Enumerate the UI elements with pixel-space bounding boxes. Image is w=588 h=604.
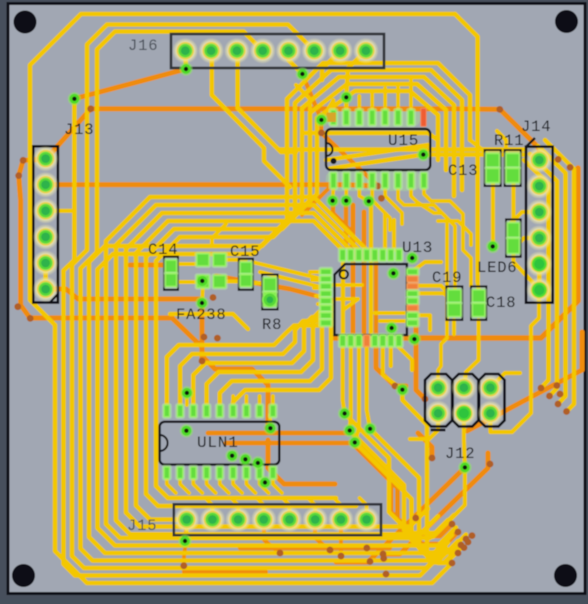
wire J12 area links (410, 413, 438, 439)
wire orange vertical x268 to ULN bottom (268, 440, 335, 484)
wire orange from J13 pad6 east y299 (46, 289, 200, 299)
olive pad near U15 pin1 (327, 113, 337, 123)
svg-text:C15: C15 (230, 243, 260, 261)
svg-text:LED6: LED6 (477, 259, 517, 277)
wire ULN1 inner vias links (185, 393, 189, 405)
LED LED6 (505, 219, 521, 256)
big loop traces (6): U13 west, down, east above ULN, SE staircase, south, east bottom (106, 197, 448, 538)
wire U15 bottom pads fan down (331, 188, 336, 201)
wire orange FA238 via down to ULN area (202, 303, 268, 424)
capacitor C15 (238, 259, 254, 290)
R8 bottom pad circular (263, 293, 277, 307)
connector J14 (526, 147, 553, 303)
resistor R8 (262, 275, 279, 310)
wire orange U13 bottom to J12 (376, 345, 406, 386)
bottom-layer via dots (87, 105, 94, 112)
wire U15 crossing traces (280, 147, 524, 152)
wire ULN1 top pad stubs (165, 396, 169, 405)
wire orange U15 bottom stubs (302, 188, 329, 215)
wire U15 wrap bundle (5) (287, 63, 470, 218)
connector J13 (33, 146, 59, 303)
svg-text:R8: R8 (262, 316, 282, 334)
wire orange top J16 diagonal via chain (302, 74, 321, 120)
wire orange y185 from J13 pad2 (46, 185, 378, 186)
wire orange shallow diagonal FA to U13 (216, 276, 332, 300)
wire top outer trace T1 (30, 14, 455, 583)
wire via74 trace down (64, 99, 441, 576)
wire orange verticals above/through U13 (351, 205, 356, 345)
wire LED6/R11/C13 connections (491, 179, 495, 246)
wire J15 pad down stub (185, 520, 189, 542)
wire orange J12 via down-left diagonal (336, 467, 465, 562)
connector J16 (171, 34, 384, 68)
wire orange mid y433 E of ULN to J12 (418, 433, 432, 458)
wire J15 pad up stubs (205, 498, 212, 520)
wire C19/C18 connections (452, 320, 456, 334)
wire orange under J15 fan (240, 546, 390, 551)
mounting hole top-right (555, 10, 578, 33)
wire top trace T3 (J16 pad5 to left/down) (81, 32, 449, 561)
svg-text:C18: C18 (486, 294, 516, 312)
svg-text:J15: J15 (127, 517, 157, 535)
capacitor C18 (470, 286, 487, 320)
IC U15 pad strips (326, 107, 420, 127)
wire FA238/C14/C15/R8 local nets (170, 314, 248, 329)
mounting hole bottom-right (554, 564, 577, 587)
wire U15 top pads up fan (321, 100, 333, 120)
resistor R11 (504, 150, 521, 186)
vias (68, 92, 81, 105)
svg-text:C13: C13 (448, 162, 478, 180)
wire C13/R11 up (470, 140, 486, 153)
mounting hole top-left (14, 11, 37, 34)
svg-text:J14: J14 (521, 118, 551, 136)
wire verticals above U13 (341, 252, 345, 345)
wire orange right edge thick down to y338 west (332, 168, 578, 338)
svg-text:J12: J12 (445, 445, 475, 463)
svg-text:R11: R11 (494, 132, 524, 150)
IC U13 (335, 264, 407, 335)
svg-text:J13: J13 (64, 121, 94, 139)
capacitor C19 (446, 286, 463, 320)
wire U13 left pads to loop (310, 270, 326, 274)
wire orange behind ULN1 then staircase SE (208, 433, 452, 536)
svg-text:U15: U15 (388, 132, 419, 150)
wire T1 right bend down to C18 (455, 14, 478, 282)
wire U13 inner horizontals (330, 283, 362, 287)
connector J15 (174, 504, 381, 535)
wire orange net: left chain to J13 pad1 and down left edge (46, 109, 91, 159)
capacitor C13 (484, 150, 501, 186)
bundle ULN1 top pads NE to U13 left pads (167, 326, 321, 408)
IC ULN1 (160, 422, 280, 465)
wire U13 right pads east (412, 286, 448, 293)
wire right side verticals (4) (524, 160, 549, 388)
staircase from via cluster SE to bottom (345, 414, 454, 534)
wire orange y265 segment (130, 262, 162, 267)
svg-text:J16: J16 (128, 37, 158, 55)
wire top trace T2 (J16 pad6 to left/down) (72, 25, 446, 569)
wire group A extra verticals from FA-area horizontals (89, 206, 452, 553)
connector J12 (425, 374, 452, 426)
wire J13 pad stubs (46, 209, 75, 213)
wire ULN1 bottom pad stubs SE (167, 478, 176, 493)
mounting hole bottom-left (12, 564, 35, 587)
wire orange net: J16 via to via74 (74, 69, 186, 99)
wire orange right-edge lower diagonal (467, 332, 582, 431)
svg-text:C19: C19 (432, 269, 462, 287)
IC U15 (326, 129, 430, 170)
U15 pad 16 highlighted (421, 108, 426, 126)
wire J16 pad stubs (183, 51, 188, 69)
wire U13 bottom fan down to vias (343, 347, 345, 414)
crystal FA238 (195, 252, 211, 268)
wire orange horizontal y109 to J14 pad1 (91, 109, 539, 160)
wire J14 pads west stubs (510, 212, 539, 224)
capacitor C14 (163, 257, 178, 290)
svg-text:C14: C14 (148, 241, 178, 259)
